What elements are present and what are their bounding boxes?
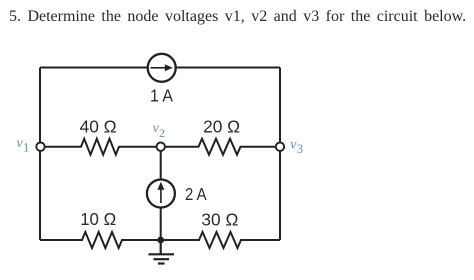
svg-text:2 A: 2 A: [185, 184, 207, 204]
svg-text:20 Ω: 20 Ω: [203, 116, 240, 136]
svg-text:40 Ω: 40 Ω: [80, 117, 117, 137]
svg-text:5. Determine the node voltages: 5. Determine the node voltages v1, v2 an…: [9, 8, 466, 25]
svg-text:30 Ω: 30 Ω: [201, 209, 238, 229]
svg-text:v3: v3: [290, 138, 303, 157]
svg-text:10 Ω: 10 Ω: [80, 209, 116, 229]
svg-text:v2: v2: [153, 120, 165, 140]
svg-text:1 A: 1 A: [150, 85, 173, 105]
svg-text:v1: v1: [17, 136, 30, 155]
